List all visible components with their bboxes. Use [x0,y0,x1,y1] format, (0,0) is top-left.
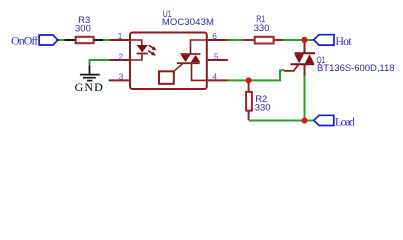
svg-text:3: 3 [119,72,124,82]
wire R3 to pin1 [103,39,110,41]
svg-text:OnOff: OnOff [11,33,38,47]
pin 6 [208,31,228,41]
svg-text:MOC3043M: MOC3043M [162,17,214,28]
resistor R3 lead right [94,39,103,41]
wire triac MT1 down [304,76,306,121]
wire pin6 to R1 [228,39,244,41]
svg-text:5: 5 [214,51,219,61]
U1 internal triac [177,40,208,80]
resistor R2 [246,80,270,120]
port Hot [314,34,353,48]
transistor Q1 triac [284,40,394,76]
U1 internal LED [129,40,148,60]
svg-text:330: 330 [255,102,271,113]
resistor R3 [75,15,94,43]
svg-text:300: 300 [75,23,91,34]
svg-text:330: 330 [254,23,270,34]
svg-text:GND: GND [75,80,104,94]
svg-text:Hot: Hot [335,34,352,48]
svg-text:2: 2 [119,51,124,61]
wire pin4 to gate elbow [228,70,285,80]
wire R2 to Load [249,120,314,122]
port Load [314,114,355,128]
pin 1 [110,31,129,41]
pin 2 [110,51,130,61]
U1 zero-cross detector square [159,63,183,84]
junction node Load [302,118,308,124]
wire port OnOff to R3 [58,39,65,41]
pin 5 [208,51,228,61]
wire pin2 to GND [90,60,110,66]
U1 LED light arrows [148,45,156,55]
port OnOff [11,33,58,47]
svg-text:4: 4 [212,72,217,82]
wire R1 to Hot [283,39,313,41]
junction node gate/R2 [246,77,252,83]
pin 3 [109,72,129,82]
svg-text:6: 6 [212,31,217,41]
resistor R3 lead left [65,39,76,41]
svg-text:BT136S-600D,118: BT136S-600D,118 [317,63,395,74]
svg-text:1: 1 [118,31,123,41]
junction node Hot [301,37,307,43]
resistor R1 [243,14,283,43]
svg-text:Load: Load [335,114,355,128]
pin 4 [208,72,228,82]
ground [75,66,104,95]
op-amp U1 optocoupler MOC3043M box [130,9,214,89]
